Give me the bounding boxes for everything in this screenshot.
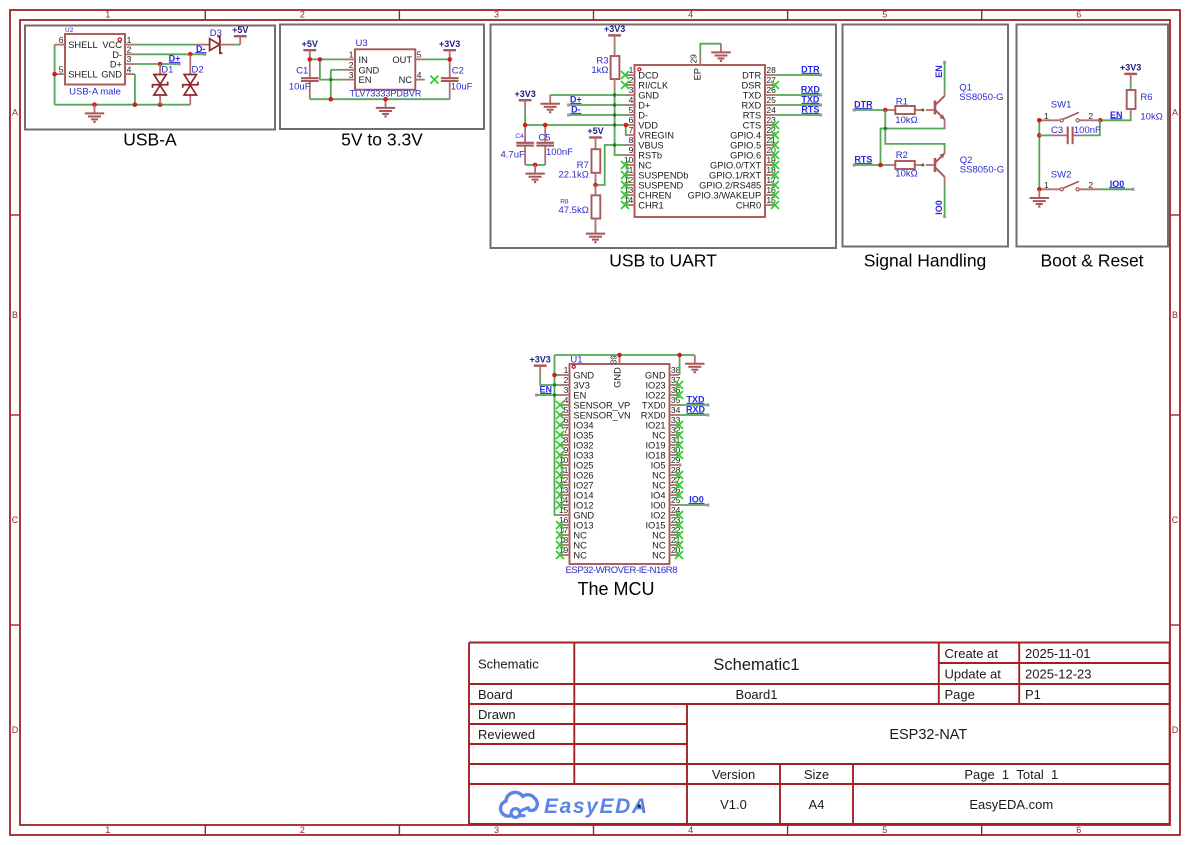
- wire pin1 to GND vertical: [555, 374, 561, 376]
- svg-text:4: 4: [564, 395, 569, 405]
- svg-text:IO0: IO0: [934, 200, 944, 215]
- svg-text:5: 5: [564, 405, 569, 415]
- wire crossing dot: [613, 144, 616, 147]
- section box 5V to 3.3V: [280, 25, 484, 130]
- resistor R1 leads: [888, 109, 934, 111]
- wire EN to Q1 collector: [944, 63, 946, 91]
- svg-text:SENSOR_VP: SENSOR_VP: [573, 401, 630, 411]
- svg-text:IO18: IO18: [645, 451, 665, 461]
- svg-text:RI/CLK: RI/CLK: [638, 81, 669, 91]
- ground USB-UART pin3: [541, 95, 560, 112]
- wire VDD to VREGIN jog: [625, 125, 627, 135]
- wire pin38 to rail: [679, 355, 681, 375]
- svg-text:ESP32-WROVER-IE-N16R8: ESP32-WROVER-IE-N16R8: [566, 565, 678, 576]
- svg-text:C1: C1: [296, 66, 308, 77]
- svg-text:C3: C3: [1051, 125, 1063, 136]
- no-connect X marks right pins: [771, 81, 779, 209]
- junction ground stem (regulator): [383, 97, 388, 102]
- svg-text:NC: NC: [652, 531, 666, 541]
- section box Boot &amp; Reset: [1017, 25, 1169, 247]
- wire crossing dot: [329, 78, 332, 81]
- dangling end RTS wire: [819, 114, 822, 117]
- wire SW2 to IO0: [1100, 188, 1132, 190]
- label C5 100nF: [538, 132, 573, 158]
- resistor R7 22.1k&#937;: [558, 149, 600, 180]
- svg-text:RXD0: RXD0: [641, 411, 666, 421]
- svg-text:10kΩ: 10kΩ: [1140, 112, 1162, 123]
- title block text Version Size Page: [712, 767, 1058, 782]
- svg-text:DSR: DSR: [742, 81, 762, 91]
- capacitor C1: [301, 78, 319, 81]
- svg-text:Schematic1: Schematic1: [713, 656, 799, 674]
- svg-text:39: 39: [609, 355, 619, 365]
- wire VCC to D3: [135, 44, 196, 46]
- wire R6 to EN node: [1100, 116, 1131, 120]
- svg-text:GND: GND: [638, 91, 659, 101]
- svg-text:7: 7: [629, 125, 634, 135]
- svg-text:GPIO.1/RXT: GPIO.1/RXT: [709, 171, 761, 181]
- svg-text:2025-11-01: 2025-11-01: [1025, 646, 1091, 661]
- svg-text:Reviewed: Reviewed: [478, 727, 535, 742]
- svg-text:3: 3: [349, 70, 354, 80]
- svg-text:3: 3: [494, 825, 499, 835]
- capacitor C1 leads: [309, 59, 311, 99]
- svg-text:VBUS: VBUS: [638, 141, 663, 151]
- svg-text:D+: D+: [638, 101, 650, 111]
- svg-text:ESP32-NAT: ESP32-NAT: [889, 727, 967, 743]
- net label D- (UART): [570, 105, 581, 115]
- resistor R6 10k&#937;: [1127, 90, 1163, 123]
- svg-text:DTR: DTR: [742, 71, 761, 81]
- MCU U1 ESP32-WROVER-IE-N16R8: [559, 354, 681, 564]
- wire +3V3 to 3V3 pin: [540, 374, 560, 386]
- svg-text:7: 7: [564, 425, 569, 435]
- power flag +5V (USB-A): [232, 25, 248, 45]
- label R1 10k&#937;: [895, 96, 917, 126]
- svg-text:3: 3: [494, 10, 499, 20]
- svg-text:6: 6: [564, 415, 569, 425]
- svg-text:8: 8: [629, 135, 634, 145]
- wire SW1 pin1 down: [1038, 120, 1041, 189]
- svg-text:GND: GND: [612, 367, 622, 388]
- svg-text:5: 5: [882, 10, 887, 20]
- svg-text:3: 3: [629, 85, 634, 95]
- svg-text:IO21: IO21: [645, 421, 665, 431]
- svg-text:+3V3: +3V3: [439, 39, 460, 49]
- power flag +3V3 (MCU): [530, 354, 551, 373]
- svg-text:IO14: IO14: [573, 491, 593, 501]
- wire bottom ground bus: [310, 98, 450, 100]
- capacitor C5 leads: [544, 125, 546, 165]
- svg-text:IO0: IO0: [651, 501, 666, 511]
- svg-text:2: 2: [127, 45, 132, 55]
- svg-text:+3V3: +3V3: [1120, 63, 1141, 73]
- dangling end D+ wire: [178, 63, 181, 66]
- svg-text:IO22: IO22: [645, 391, 665, 401]
- junction +5V C1: [308, 57, 313, 62]
- svg-text:IO13: IO13: [573, 521, 593, 531]
- power flag +5V (regulator): [302, 39, 318, 60]
- svg-text:D: D: [12, 725, 19, 735]
- svg-text:NC: NC: [573, 531, 587, 541]
- svg-text:NC: NC: [652, 541, 666, 551]
- net label RTS (signal): [854, 155, 872, 165]
- svg-text:1: 1: [629, 65, 634, 75]
- wire C4 C5 join: [525, 164, 545, 166]
- svg-text:+3V3: +3V3: [514, 89, 535, 99]
- svg-text:VDD: VDD: [638, 121, 658, 131]
- dangling end IO0 wire (signal): [943, 215, 946, 218]
- svg-text:B: B: [1172, 310, 1178, 320]
- wire EP to ground: [700, 44, 721, 58]
- svg-text:U3: U3: [356, 38, 368, 49]
- title block text V1.0 A4 EasyEDA.com: [720, 797, 1053, 812]
- wire ground bus bottom: [55, 104, 191, 106]
- svg-text:NC: NC: [399, 75, 413, 85]
- svg-text:NC: NC: [652, 471, 666, 481]
- junction RTS node: [878, 163, 883, 168]
- svg-text:1kΩ: 1kΩ: [591, 65, 608, 76]
- junction DTR node: [883, 108, 888, 113]
- wire crossing dot: [613, 104, 616, 107]
- ground USB-A: [85, 105, 104, 122]
- svg-text:4: 4: [417, 70, 422, 80]
- resistor R7 leads: [595, 173, 597, 185]
- capacitor C2 leads: [449, 59, 451, 99]
- ground EP: [711, 44, 730, 61]
- svg-text:2: 2: [1088, 111, 1093, 121]
- svg-text:Board: Board: [478, 687, 513, 702]
- svg-text:8: 8: [564, 435, 569, 445]
- svg-text:GPIO.0/TXT: GPIO.0/TXT: [710, 161, 761, 171]
- wire Q1 emitter to RTS: [881, 127, 945, 165]
- svg-text:2: 2: [564, 375, 569, 385]
- wire IO0 pin25: [679, 504, 707, 506]
- svg-text:The MCU: The MCU: [577, 579, 654, 599]
- USB-UART bridge IC body: [624, 54, 776, 217]
- svg-text:Create at: Create at: [945, 646, 999, 661]
- svg-text:5V to 3.3V: 5V to 3.3V: [341, 130, 423, 150]
- dangling end D- wire: [203, 53, 206, 56]
- svg-text:IO23: IO23: [645, 381, 665, 391]
- svg-text:4: 4: [688, 825, 693, 835]
- svg-text:1: 1: [1044, 111, 1049, 121]
- svg-text:EN: EN: [934, 65, 944, 78]
- dangling end RXD wire (MCU): [706, 414, 709, 417]
- svg-text:IO5: IO5: [651, 461, 666, 471]
- svg-text:GND: GND: [573, 371, 594, 381]
- wire EN to pin3: [537, 394, 560, 396]
- dangling end IO0 wire (boot): [1132, 188, 1135, 191]
- wire crossing dot: [613, 114, 616, 117]
- connector U2 USB-A male: [55, 27, 135, 85]
- junction C4 C5 ground: [533, 163, 538, 168]
- svg-text:A: A: [1172, 108, 1178, 118]
- svg-text:47.5kΩ: 47.5kΩ: [558, 205, 588, 216]
- dangling end D+ wire (UART): [567, 104, 570, 107]
- svg-text:D: D: [1172, 725, 1179, 735]
- net label TXD (MCU): [687, 395, 706, 405]
- ground MCU: [685, 355, 704, 372]
- switch SW1: [1040, 99, 1100, 122]
- svg-text:3: 3: [127, 54, 132, 64]
- svg-text:C4: C4: [515, 133, 524, 140]
- svg-text:35: 35: [671, 395, 681, 405]
- svg-text:SW2: SW2: [1051, 170, 1072, 181]
- junction C3 left: [1037, 133, 1042, 138]
- svg-text:IO27: IO27: [573, 481, 593, 491]
- svg-text:R2: R2: [896, 150, 908, 161]
- svg-text:2025-12-23: 2025-12-23: [1025, 666, 1092, 681]
- wire crossing dot: [553, 384, 556, 387]
- svg-text:5: 5: [59, 64, 64, 74]
- wire TXD: [775, 104, 820, 106]
- svg-text:10uF: 10uF: [451, 82, 473, 93]
- svg-text:2: 2: [300, 10, 305, 20]
- svg-text:RTS: RTS: [743, 111, 761, 121]
- resistor R8 47.5k&#937;: [592, 195, 601, 218]
- resistor R2 10k&#937;: [895, 161, 915, 169]
- dangling end DTR wire (signal): [853, 109, 856, 112]
- svg-text:IO32: IO32: [573, 441, 593, 451]
- svg-text:GPIO.5: GPIO.5: [730, 141, 761, 151]
- svg-text:3V3: 3V3: [573, 381, 590, 391]
- junction pin39 rail: [617, 353, 622, 358]
- svg-text:R6: R6: [1140, 92, 1152, 103]
- svg-text:TXD0: TXD0: [642, 401, 666, 411]
- svg-text:CTS: CTS: [743, 121, 762, 131]
- junction R7 R8 divider: [593, 183, 598, 188]
- svg-text:GPIO.6: GPIO.6: [730, 151, 761, 161]
- svg-text:C: C: [1172, 515, 1179, 525]
- svg-text:D-: D-: [112, 50, 122, 60]
- net label D+ (UART): [570, 95, 582, 105]
- wire to C3 left: [1039, 134, 1049, 136]
- svg-text:VCC: VCC: [102, 40, 122, 50]
- svg-text:A: A: [12, 108, 18, 118]
- junction SW2 pin1 ground: [1037, 187, 1042, 192]
- svg-text:D3: D3: [210, 28, 222, 39]
- wire D+ to pin4: [569, 104, 625, 106]
- junction EN branch: [318, 57, 323, 62]
- svg-text:5: 5: [629, 105, 634, 115]
- svg-text:Drawn: Drawn: [478, 707, 516, 722]
- ground regulator: [376, 99, 395, 116]
- dangling end IO0 wire (MCU): [706, 504, 709, 507]
- section box USB-A: [25, 26, 275, 130]
- svg-text:10kΩ: 10kΩ: [895, 115, 917, 126]
- svg-text:100nF: 100nF: [1074, 125, 1101, 136]
- svg-text:SENSOR_VN: SENSOR_VN: [573, 411, 630, 421]
- wire divider to VBUS: [596, 145, 626, 185]
- power flag +3V3 (regulator): [439, 39, 460, 60]
- title block text Board row: [478, 687, 1041, 702]
- junction GND return: [329, 97, 334, 102]
- regulator U3 TLV73333PDBVR: [346, 38, 425, 89]
- svg-text:IO35: IO35: [573, 431, 593, 441]
- svg-text:4.7uF: 4.7uF: [501, 150, 525, 161]
- wire C3 right to EN node: [1082, 120, 1100, 135]
- transistor Q1 SS8050-G: [935, 83, 1004, 127]
- svg-text:NC: NC: [573, 551, 587, 561]
- no-connect X marks U1 right pins: [675, 381, 683, 559]
- svg-text:2: 2: [300, 825, 305, 835]
- capacitor C4 4.7uF: [516, 143, 534, 146]
- resistor R3 1k&#937;: [591, 56, 619, 80]
- svg-text:IO4: IO4: [651, 491, 666, 501]
- svg-text:CHR0: CHR0: [736, 201, 761, 211]
- wire crossing dot R1 base: [922, 109, 925, 112]
- svg-text:RSTb: RSTb: [638, 151, 662, 161]
- svg-text:4: 4: [629, 95, 634, 105]
- wire RTS to R2: [855, 164, 888, 166]
- svg-text:CHREN: CHREN: [638, 191, 671, 201]
- svg-text:15: 15: [559, 505, 569, 515]
- resistor R1 10k&#937;: [895, 106, 915, 114]
- junction pin4 at ground bus: [133, 102, 138, 107]
- svg-text:6: 6: [629, 115, 634, 125]
- svg-text:Update at: Update at: [945, 666, 1002, 681]
- wire DTR: [775, 74, 820, 76]
- ground C4 C5: [525, 165, 544, 182]
- wire +5V to IN: [310, 58, 346, 60]
- svg-text:GPIO.2/RS485: GPIO.2/RS485: [699, 181, 761, 191]
- svg-text:IO15: IO15: [645, 521, 665, 531]
- wire TXD0: [679, 404, 707, 406]
- svg-text:IO34: IO34: [573, 421, 593, 431]
- wire GND pin2 drop: [330, 70, 332, 99]
- svg-text:SUSPEND: SUSPEND: [638, 181, 683, 191]
- svg-text:34: 34: [671, 405, 681, 415]
- junction EN node: [1098, 118, 1103, 123]
- wire crossing dot: [884, 127, 887, 130]
- svg-text:2: 2: [1088, 180, 1093, 190]
- junction C5 VDD: [543, 123, 548, 128]
- svg-text:IO19: IO19: [645, 441, 665, 451]
- svg-text:+5V: +5V: [587, 126, 603, 136]
- svg-text:IN: IN: [359, 55, 368, 65]
- svg-text:2: 2: [629, 75, 634, 85]
- wire GND top rail: [555, 354, 695, 356]
- wire RXD: [775, 94, 820, 96]
- ground R8: [586, 225, 605, 242]
- title block grid: [469, 643, 1170, 825]
- transistor Q2 SS8050-G: [935, 150, 1004, 186]
- wire GND pin2: [331, 69, 346, 71]
- svg-text:+3V3: +3V3: [530, 354, 551, 364]
- svg-text:IO12: IO12: [573, 501, 593, 511]
- svg-text:NC: NC: [573, 541, 587, 551]
- dangling end RTS wire (signal): [853, 164, 856, 167]
- svg-text:IO26: IO26: [573, 471, 593, 481]
- junction C4 VDD: [523, 123, 528, 128]
- svg-text:EN: EN: [359, 75, 372, 85]
- svg-text:GND: GND: [573, 511, 594, 521]
- svg-text:D-: D-: [638, 111, 648, 121]
- resistor R3 leads: [614, 50, 616, 90]
- wire +3V3 down: [524, 109, 526, 125]
- svg-text:3: 3: [564, 385, 569, 395]
- capacitor C5 100nF: [536, 143, 554, 146]
- wire crossing dot R2 base: [922, 164, 925, 167]
- svg-text:U1: U1: [570, 354, 582, 365]
- svg-text:4: 4: [688, 10, 693, 20]
- svg-text:EasyEDA.com: EasyEDA.com: [969, 797, 1053, 812]
- svg-text:1: 1: [105, 10, 110, 20]
- wire R3 to RSTb: [615, 90, 625, 156]
- svg-text:+5V: +5V: [232, 25, 248, 35]
- svg-text:NC: NC: [652, 481, 666, 491]
- net label D-: [195, 44, 206, 54]
- wire +5V to R7: [595, 147, 597, 150]
- svg-text:5: 5: [882, 825, 887, 835]
- net label IO0 (boot): [1109, 179, 1125, 189]
- svg-text:U2: U2: [65, 27, 74, 34]
- svg-text:1: 1: [105, 825, 110, 835]
- svg-text:DCD: DCD: [638, 71, 658, 81]
- svg-text:USB to UART: USB to UART: [609, 251, 717, 271]
- svg-text:2: 2: [349, 60, 354, 70]
- dangling end DTR wire: [819, 74, 822, 77]
- svg-text:4: 4: [127, 64, 132, 74]
- svg-text:28: 28: [766, 65, 776, 75]
- svg-text:NC: NC: [652, 551, 666, 561]
- section box Signal Handling: [843, 25, 1009, 247]
- wire GND left vertical: [555, 355, 561, 515]
- wire shell left vertical: [54, 45, 56, 105]
- unconnected pin 29 end: [679, 464, 682, 467]
- svg-text:SS8050-G: SS8050-G: [960, 164, 1004, 175]
- no-connect X marks U1 left pins: [556, 401, 564, 559]
- no-connect X marks left pins: [621, 71, 629, 209]
- svg-text:9: 9: [629, 145, 634, 155]
- svg-text:26: 26: [766, 85, 776, 95]
- resistor R8 leads: [595, 185, 597, 226]
- wire RXD0: [679, 414, 707, 416]
- svg-text:NC: NC: [638, 161, 652, 171]
- svg-text:GPIO.3/WAKEUP: GPIO.3/WAKEUP: [688, 191, 762, 201]
- svg-text:Page 1 Total 1: Page 1 Total 1: [964, 767, 1058, 782]
- svg-text:C: C: [12, 515, 19, 525]
- wire DTR to Q2 emitter: [885, 110, 944, 150]
- EasyEDA logo text: [544, 795, 647, 818]
- svg-text:RXD: RXD: [742, 101, 762, 111]
- svg-text:V1.0: V1.0: [720, 797, 747, 812]
- wire +3V3 to R3: [614, 45, 616, 50]
- junction ground stem: [92, 102, 97, 107]
- ground boot section: [1030, 189, 1049, 206]
- svg-text:TXD: TXD: [743, 91, 762, 101]
- junction D- at D2: [188, 52, 193, 57]
- dangling end EN wire (MCU): [535, 394, 538, 397]
- net label EN (boot): [1110, 110, 1123, 120]
- svg-text:25: 25: [766, 95, 776, 105]
- net label TXD: [801, 95, 820, 105]
- wire EN tie to IN: [320, 59, 346, 79]
- svg-text:Board1: Board1: [736, 687, 778, 702]
- svg-text:B: B: [12, 310, 18, 320]
- TVS diode D1: [153, 64, 174, 105]
- title block text Schematic row: [478, 646, 1092, 681]
- net label DTR (signal): [854, 100, 873, 110]
- svg-text:GPIO.4: GPIO.4: [730, 131, 761, 141]
- svg-text:29: 29: [688, 54, 698, 64]
- svg-text:SS8050-G: SS8050-G: [959, 92, 1003, 103]
- svg-text:VREGIN: VREGIN: [638, 131, 674, 141]
- power flag +3V3 (VDD): [514, 89, 535, 109]
- resistor R2 leads: [888, 164, 934, 166]
- svg-text:SW1: SW1: [1051, 99, 1072, 110]
